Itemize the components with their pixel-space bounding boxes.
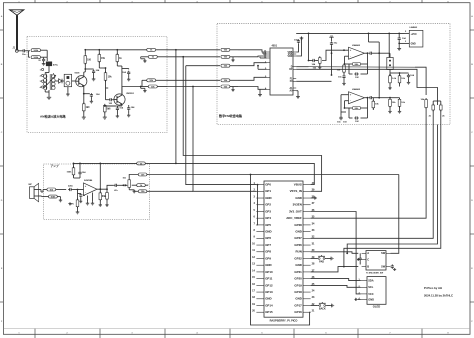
IC U6 Raspberry Pi Pico body xyxy=(264,181,303,323)
wire Q2 emitter down xyxy=(104,104,122,107)
wire VCC to trimmer top xyxy=(388,33,390,57)
VCC arrow symbol 1 xyxy=(329,36,333,41)
resistor RB16 10k xyxy=(389,97,406,110)
wire in1 to 4051 xyxy=(238,50,267,52)
wire box1 out4 to box2 in5 xyxy=(167,86,220,88)
svg-text:SCL: SCL xyxy=(368,285,374,289)
diode D1 xyxy=(55,79,62,83)
capacitor CB13 out coupling xyxy=(369,96,380,99)
ground under RC5 xyxy=(99,204,102,207)
ground under C8 xyxy=(127,114,130,117)
wire 4051 pin extra3 xyxy=(257,65,267,70)
resistor RC8 out low xyxy=(134,190,148,193)
ground under out2 xyxy=(141,59,147,63)
svg-text:RUN: RUN xyxy=(296,250,302,254)
wire opamp2 to dividers xyxy=(379,98,390,99)
wire coil bottom to ground xyxy=(45,90,49,96)
svg-text:GP17: GP17 xyxy=(294,303,302,307)
svg-text:R_ENCODER_SW: R_ENCODER_SW xyxy=(366,273,383,275)
wire GP21 to encoder B xyxy=(311,267,359,272)
ground under C7 xyxy=(127,78,130,81)
svg-text:+VCC: +VCC xyxy=(411,34,418,36)
svg-text:GND: GND xyxy=(265,196,271,200)
svg-text:LM4862: LM4862 xyxy=(410,26,418,29)
svg-text:GND: GND xyxy=(295,196,301,200)
svg-text:GP2: GP2 xyxy=(265,203,271,207)
resistor RB17 vert 10k xyxy=(421,98,428,125)
svg-text:GP14: GP14 xyxy=(265,303,273,307)
svg-text:アンプ: アンプ xyxy=(51,164,59,168)
capacitor CB8 at VCC xyxy=(398,33,407,44)
ground under RC2 xyxy=(59,197,62,202)
dashed module box - AM tuner/amplifier stage xyxy=(27,37,167,133)
svg-text:GP3: GP3 xyxy=(265,209,271,213)
svg-text:-: - xyxy=(85,191,86,194)
connector pins of coil header xyxy=(40,68,44,88)
rotary encoder ENC1 xyxy=(362,251,391,275)
svg-text:GP28: GP28 xyxy=(294,223,302,227)
wire GP19 to OLED SCL xyxy=(311,285,361,287)
svg-text:-: - xyxy=(350,55,351,58)
capacitor CB2 series xyxy=(309,59,319,66)
transformer T1 tuned coil xyxy=(44,73,57,91)
resistor R4 15k xyxy=(98,50,106,68)
svg-text:GP22: GP22 xyxy=(294,256,302,260)
svg-text:GP12: GP12 xyxy=(265,283,273,287)
svg-text:100k: 100k xyxy=(67,172,73,174)
resistor R10 output IF2 xyxy=(141,55,167,58)
wire opamp2 +in xyxy=(341,94,349,96)
svg-text:NJM386: NJM386 xyxy=(84,180,93,182)
ground below 4051 left xyxy=(258,89,262,96)
svg-text:VDD: VDD xyxy=(288,56,293,58)
connector J1 antenna input xyxy=(13,48,19,53)
resistor RB10 10k xyxy=(398,73,406,87)
wire box2 DF-net loop xyxy=(305,69,438,105)
wire 4051 DF pin right xyxy=(296,68,305,70)
wire fb to rail xyxy=(73,162,75,164)
title text line1 xyxy=(424,286,442,290)
wire box2 to encoder B net xyxy=(343,125,441,268)
capacitor CC4 47u out xyxy=(100,184,124,192)
svg-text:GND: GND xyxy=(295,263,301,267)
wire rail R3 top xyxy=(84,50,86,54)
wire opamp1 out rail up xyxy=(368,33,380,97)
wire out up to rail xyxy=(99,163,101,190)
resistor RC4 100k feedback xyxy=(67,163,81,178)
title text line2 xyxy=(424,294,453,298)
wire amp out3 line xyxy=(148,190,193,192)
ground under C3 xyxy=(92,78,96,81)
ground under CE1 xyxy=(357,258,360,264)
ground left of opamp xyxy=(68,202,71,205)
wire ADC_VREF to box2 xyxy=(311,125,427,219)
dashed module box - audio amp xyxy=(44,164,150,220)
capacitor CE1 encoder A-C xyxy=(359,253,362,263)
wire box1 out3 to box2 in4 xyxy=(167,79,220,81)
svg-text:10u: 10u xyxy=(334,43,338,45)
svg-text:GND: GND xyxy=(295,230,301,234)
wire mic lower xyxy=(34,195,42,197)
resistor R1 100k xyxy=(31,49,41,52)
resistor RB4 box2 input 4 xyxy=(221,79,238,82)
resistor RB9 10k xyxy=(389,74,397,86)
capacitor C5 104 emitter bypass xyxy=(84,93,100,100)
svg-text:OLED: OLED xyxy=(373,305,381,309)
wire cap to R1/R2 split xyxy=(26,51,30,57)
wire RC7 exit jog xyxy=(147,184,149,187)
Pico left pins GP0-GP15 xyxy=(252,182,273,314)
wire GP27 to box2 xyxy=(311,125,434,239)
wire vertical bus V1 xyxy=(175,50,177,165)
capacitor CB3 10u xyxy=(330,41,338,49)
wire R1/R2 right join xyxy=(41,50,48,61)
svg-text:10n: 10n xyxy=(338,77,342,79)
button SW1 PAD xyxy=(317,255,326,263)
wire 4051 pin extra1 xyxy=(263,52,267,54)
wire vertical bus V4 to GP1 xyxy=(193,87,256,192)
ground under filter xyxy=(66,87,70,96)
ceramic filter X1 block xyxy=(62,74,72,86)
wire box1 out1 to box2 in1 xyxy=(167,49,220,51)
capacitor-ground at SW1 xyxy=(326,257,333,261)
wire choke to transformer xyxy=(48,66,50,73)
wire antenna jack to cap xyxy=(18,50,21,52)
capacitor C8 104 at Q2 out xyxy=(122,87,135,114)
resistor RC2 100k xyxy=(42,195,61,198)
wire box2 to encoder A net xyxy=(346,125,437,255)
ground under RB9 xyxy=(388,87,391,90)
resistor RB14 10k vert xyxy=(372,98,379,110)
svg-text:GND: GND xyxy=(295,297,301,301)
op-amp U5 NJM386 xyxy=(84,180,98,195)
svg-text:VBUS: VBUS xyxy=(294,183,302,187)
svg-text:GP13: GP13 xyxy=(265,290,273,294)
ground under RB16 xyxy=(398,110,401,113)
wire VCC pin xyxy=(405,31,410,33)
wire box2 D-net loop xyxy=(415,67,426,95)
wire 4051 D pin right xyxy=(296,66,308,68)
potentiometer RP2 volume xyxy=(123,178,131,190)
wire cap chain to opamp1 xyxy=(322,50,341,60)
resistor RB3 box2 input 3 xyxy=(221,64,238,67)
label AM module (CJK) xyxy=(40,114,67,119)
capacitor-ground at SW2 xyxy=(327,304,334,308)
ground below 4051 right xyxy=(296,91,300,99)
svg-text:PAD: PAD xyxy=(319,261,324,264)
supply rail in box1 xyxy=(84,49,146,51)
svg-text:GP26: GP26 xyxy=(294,243,302,247)
svg-text:C: C xyxy=(367,257,369,261)
svg-text:BACK: BACK xyxy=(319,308,326,311)
svg-text:GP27: GP27 xyxy=(294,236,302,240)
wire in3 to 4051 xyxy=(238,63,267,66)
svg-text:GP11: GP11 xyxy=(265,277,273,281)
transistor Q2 2N5551 xyxy=(114,93,135,105)
ground sym above 4051 xyxy=(300,37,304,40)
wire GND pin xyxy=(399,41,409,43)
amp top rail xyxy=(73,163,137,165)
svg-text:GP15: GP15 xyxy=(265,310,273,314)
svg-text:GP8: GP8 xyxy=(265,250,271,254)
svg-text:10n: 10n xyxy=(22,54,26,56)
svg-text:GND: GND xyxy=(411,44,416,46)
wire mic to amp in xyxy=(34,190,47,193)
capacitor CC2 1u xyxy=(78,193,86,203)
resistor R11 output low1 xyxy=(142,79,167,87)
wire opamp out xyxy=(97,188,101,190)
ground under RB15 xyxy=(388,110,391,113)
capacitor CB6 out coupling xyxy=(369,52,381,55)
wire GP22 to button xyxy=(311,258,318,260)
ground under C6 xyxy=(116,115,119,118)
capacitor CC3 104 xyxy=(78,163,86,178)
wire Q1 collector up xyxy=(84,64,86,77)
wire Q1 emitter down xyxy=(83,86,85,95)
wire H2 amp out to VBUS xyxy=(148,163,314,184)
resistor R6 1k xyxy=(116,50,122,66)
resistor RC5 1.3k xyxy=(99,189,107,203)
wire GP17 to BACK button xyxy=(311,305,318,307)
wire pot top to RC10 xyxy=(129,175,138,179)
ground below C2 xyxy=(42,62,46,65)
wire F lines right xyxy=(296,74,332,81)
resistor R8 5k6 xyxy=(104,104,112,116)
resistor RB6 small xyxy=(313,56,322,69)
svg-text:B: B xyxy=(367,265,369,269)
wire filter to Q1 base xyxy=(72,80,76,82)
wire 4051 pin extra2 xyxy=(260,57,267,58)
svg-text:AM检波&放大电路: AM检波&放大电路 xyxy=(40,114,67,119)
wire CC1 to opamp xyxy=(78,189,84,191)
svg-text:SDA: SDA xyxy=(368,279,374,283)
ground under box2 input5 xyxy=(231,87,234,92)
svg-text:3V3EN: 3V3EN xyxy=(293,203,302,207)
svg-text:A: A xyxy=(367,251,369,255)
svg-text:GP10: GP10 xyxy=(265,270,273,274)
wire opamp pwr pins gnd xyxy=(86,196,89,206)
resistor R7 1k0 emitter xyxy=(83,94,91,116)
ground right of CE3 xyxy=(393,268,396,271)
transistor Q1 9018 xyxy=(75,72,87,86)
capacitor C6 104 xyxy=(105,106,124,115)
svg-text:SW: SW xyxy=(381,252,386,255)
svg-text:100k: 100k xyxy=(33,57,39,59)
svg-text:GP16: GP16 xyxy=(294,310,302,314)
antenna ANT1 xyxy=(10,10,25,51)
wire GND38 stub ground xyxy=(311,196,317,199)
resistor R2 100k xyxy=(31,56,41,59)
resistor RB7 10k input xyxy=(337,64,346,75)
resistor RC6 10k xyxy=(102,189,109,203)
svg-text:-: - xyxy=(350,100,351,103)
capacitor C1 10n series xyxy=(22,49,27,56)
resistor RB19 vert 2k xyxy=(440,101,446,125)
resistor RC7 out mid xyxy=(132,184,148,187)
capacitor CB10 input 103 xyxy=(341,112,347,124)
capacitor CE3 SW2 pin xyxy=(391,264,394,268)
wire encoder SW to H3 xyxy=(391,175,399,254)
svg-text:GP19: GP19 xyxy=(294,283,302,287)
wire H3 amp out2 to encoder SW net xyxy=(148,174,399,176)
svg-text:GP21: GP21 xyxy=(294,270,302,274)
wire OLED GND ground xyxy=(355,298,361,301)
wire in2 to 4051 xyxy=(238,55,267,58)
capacitor CB9 input 10n xyxy=(337,95,343,124)
svg-text:GND: GND xyxy=(265,263,271,267)
svg-text:4051: 4051 xyxy=(272,45,278,48)
svg-text:RASPBERRY_PI_PICO: RASPBERRY_PI_PICO xyxy=(270,319,298,323)
capacitor CB5 102 feedback xyxy=(349,64,368,79)
svg-text:GND: GND xyxy=(265,297,271,301)
label FM module (CJK) xyxy=(218,113,243,118)
OLED display module DS1 xyxy=(359,277,386,309)
wire opamp2 out node xyxy=(378,96,380,98)
ground under out4 xyxy=(141,87,147,93)
wire opamp2 out xyxy=(365,97,368,99)
dashed module box - FM tuner board xyxy=(217,23,450,124)
svg-text:LM4862: LM4862 xyxy=(352,44,361,47)
wire opamp2 -in xyxy=(344,101,349,109)
wire vertical bus V3 to GP0 xyxy=(186,66,257,185)
wire in5 to 4051 xyxy=(238,87,267,90)
wire out to trimmer xyxy=(379,53,390,57)
ground under CB4 xyxy=(342,82,345,85)
resistor RB2 box2 input 2 xyxy=(221,55,238,58)
capacitor C2 to ground xyxy=(38,57,45,62)
wire Q2 collector xyxy=(117,66,122,95)
svg-text:Pi Pico by AH: Pi Pico by AH xyxy=(424,286,442,290)
svg-text:GP1: GP1 xyxy=(265,189,271,193)
svg-text:GP4: GP4 xyxy=(265,216,271,220)
svg-text:GP7: GP7 xyxy=(265,243,271,247)
resistor RC10 out H3 xyxy=(138,173,148,176)
ground under C5 xyxy=(90,100,93,103)
svg-text:3V3_OUT: 3V3_OUT xyxy=(289,209,302,213)
resistor RC3 47k xyxy=(70,190,79,211)
ground under R7 xyxy=(82,116,86,120)
svg-text:GND: GND xyxy=(368,297,374,301)
svg-text:GP18: GP18 xyxy=(294,290,302,294)
wire 4051 VBB up xyxy=(296,44,298,52)
wire H3-GP16 under-Pico loop xyxy=(250,174,311,325)
wire opamp pwr pin2 gnd xyxy=(91,193,94,206)
wire RUN to encoder A xyxy=(311,252,359,254)
resistor RC9 out top xyxy=(137,162,148,165)
resistor RB1 box2 input 1 xyxy=(221,48,238,51)
resistor R12 output low2 xyxy=(140,85,167,88)
resistor R9 output IF1 xyxy=(147,48,167,51)
svg-text:100k: 100k xyxy=(33,50,39,52)
wire C3 to ground xyxy=(93,74,95,78)
svg-text:MP: MP xyxy=(29,184,33,186)
capacitor CB12 102 feedback xyxy=(349,108,368,123)
wire out2 stub xyxy=(122,57,141,87)
wire 4051 VDD up xyxy=(296,37,301,57)
wire opamp1 -in xyxy=(344,56,349,65)
wire R4 to Q2 base chain xyxy=(99,67,108,88)
wire D line to mid xyxy=(309,66,416,69)
resistor RB11 80k feedback xyxy=(345,97,369,110)
wire V6 to GP5 xyxy=(256,184,258,225)
wire GP20 to OLED SDA xyxy=(311,279,361,281)
IC U2 4051 multiplexer xyxy=(264,45,296,95)
svg-text:GP9: GP9 xyxy=(265,256,271,260)
capacitor CC1 coupling xyxy=(68,186,78,192)
wire pot bottom corner xyxy=(129,189,134,191)
resistor RC1 10k xyxy=(47,188,66,191)
svg-text:10n: 10n xyxy=(337,122,341,124)
svg-text:GP6: GP6 xyxy=(265,236,271,240)
power block U4 LM4862 xyxy=(409,26,423,47)
wire box1 out2 to box2 in2 xyxy=(167,56,220,58)
svg-text:GP5: GP5 xyxy=(265,223,271,227)
ground under transformer xyxy=(47,96,51,100)
wire CB3 down xyxy=(331,49,333,75)
ground under pot xyxy=(133,190,136,193)
svg-text:数字FM收音电路: 数字FM收音电路 xyxy=(218,113,243,118)
op-amp U3b LM4862 xyxy=(349,88,365,104)
svg-text:ADC_VREF: ADC_VREF xyxy=(286,216,302,220)
svg-text:GND: GND xyxy=(265,230,271,234)
svg-text:VCC: VCC xyxy=(368,292,374,296)
ground under CB7 xyxy=(407,81,410,84)
ground under power block xyxy=(397,43,401,50)
svg-text:LM4862: LM4862 xyxy=(352,88,361,91)
wire rail to out pill 1 xyxy=(146,49,148,51)
ground under RC3 xyxy=(76,211,80,214)
ground under box2 input2 xyxy=(231,57,234,62)
wire out top exits box xyxy=(147,162,149,164)
wire vertical bus V2 to H1 xyxy=(183,57,321,192)
wire in4 to 4051 xyxy=(238,77,267,80)
wire opamp1 out xyxy=(365,52,368,54)
capacitor C3 104 collector xyxy=(84,68,100,74)
microphone MK1 xyxy=(29,183,39,201)
resistor RB15 10k xyxy=(389,98,397,110)
resistor RB5 box2 input 5 xyxy=(221,85,238,88)
svg-text:2024.11.28 by 2k7HLC: 2024.11.28 by 2k7HLC xyxy=(424,294,453,298)
label amp module (JP) xyxy=(51,164,59,168)
capacitor C4 base coupling xyxy=(106,88,114,105)
svg-text:VSYS_IN: VSYS_IN xyxy=(290,189,302,193)
op-amp U3a LM4862 xyxy=(349,44,365,59)
wire rail drop to cap chain xyxy=(308,33,310,61)
wire box2 in3 left stub xyxy=(186,65,220,67)
capacitor CB1 above 4051 xyxy=(294,39,300,44)
VCC rail box2 xyxy=(296,33,404,35)
svg-text:2N5551: 2N5551 xyxy=(126,93,134,95)
capacitor CB4 10n xyxy=(338,75,346,83)
svg-text:GP0: GP0 xyxy=(265,183,271,187)
svg-text:SW: SW xyxy=(381,266,386,269)
svg-text:9018: 9018 xyxy=(75,72,81,74)
svg-text:100k: 100k xyxy=(50,197,56,199)
inductor L1 470u choke xyxy=(46,62,58,67)
capacitor CB7 104 xyxy=(400,73,415,81)
ground under R8 xyxy=(103,116,107,120)
wire 3V3_OUT to OLED VCC xyxy=(311,212,361,294)
wire opamp1 +in xyxy=(341,49,349,51)
ground under RC6 xyxy=(105,204,108,207)
resistor RB8 80k feedback xyxy=(345,52,369,66)
capacitor C7 104 output filter xyxy=(122,69,130,78)
resistor R5 10k xyxy=(104,68,112,88)
svg-text:220n: 220n xyxy=(68,186,74,188)
Pico right pins VBUS-GP16 xyxy=(286,182,315,314)
button SW2 BACK xyxy=(318,302,327,310)
wire trimmer to RB10 xyxy=(390,72,400,74)
